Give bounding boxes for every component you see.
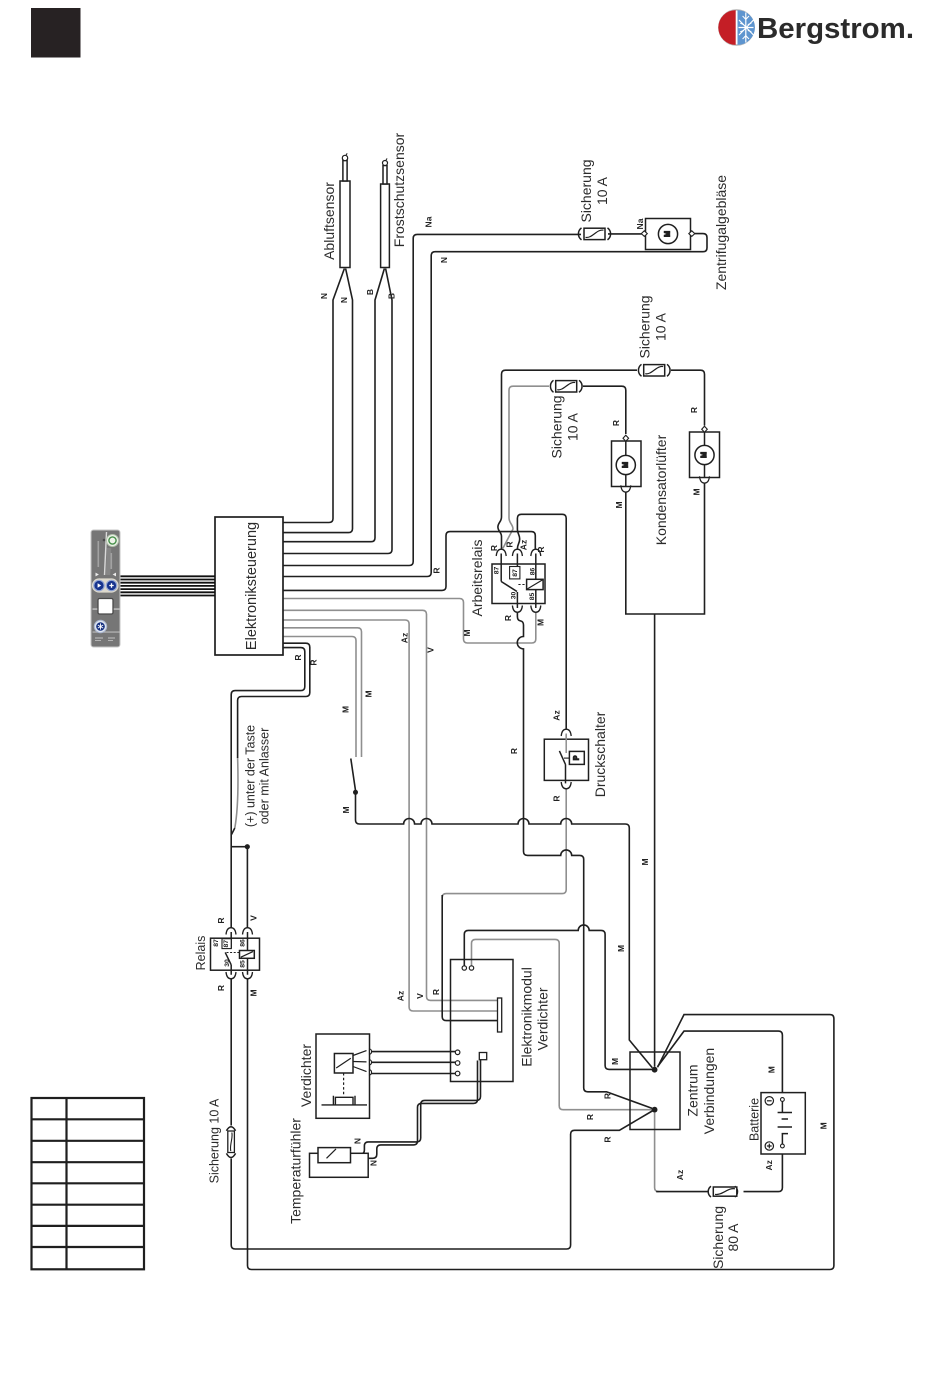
wire branch to (+) supply dot	[231, 846, 247, 848]
ribbon cable panel to Elektroniksteuerung	[120, 576, 215, 595]
box Elektronikmodul Verdichter	[451, 960, 514, 1082]
svg-text:M: M	[341, 806, 351, 813]
svg-text:R: R	[603, 1136, 613, 1142]
svg-text:M: M	[462, 629, 472, 636]
compressor Verdichter	[316, 1034, 372, 1118]
svg-text:R: R	[216, 985, 226, 991]
connector Relais pin 30 bottom	[226, 972, 236, 979]
wire R from Elektroniksteuerung bottom to Relais pin 87	[231, 648, 305, 928]
wire Frostschutzsensor lead B1 to Elektroniksteuerung	[283, 269, 384, 542]
wire merge of supply into R wire	[232, 828, 235, 835]
motor Kondensatorluefter 1	[612, 435, 642, 492]
wire R from Elektroniksteuerung to Arbeitsrelais pin 86	[283, 532, 535, 591]
svg-text:Verdichter: Verdichter	[535, 987, 551, 1050]
fuse F5 Sicherung 80A	[708, 1186, 737, 1197]
svg-text:N: N	[353, 1138, 363, 1144]
wire gray hook at (+) supply point	[235, 758, 238, 829]
svg-text:M: M	[665, 231, 672, 237]
svg-text:Az: Az	[519, 540, 529, 550]
svg-text:R: R	[585, 1114, 595, 1120]
wire M from Batterie minus to Zentrum top node	[658, 1031, 783, 1097]
battery Batterie	[761, 1093, 805, 1154]
svg-text:R: R	[293, 654, 303, 660]
wire gray M pair to switch (line 1)	[283, 628, 362, 757]
wire gray Az from Elektroniksteuerung to Elektronikmodul	[283, 620, 498, 1011]
node (+) supply dot	[245, 844, 250, 849]
svg-text:R: R	[552, 795, 562, 801]
svg-text:B: B	[387, 293, 397, 299]
svg-text:M: M	[364, 690, 374, 697]
svg-text:R: R	[503, 615, 513, 621]
svg-text:Az: Az	[396, 991, 406, 1001]
wire M below Kondensatorluefter motors	[626, 483, 705, 614]
svg-text:N: N	[319, 293, 329, 299]
svg-text:R: R	[489, 545, 499, 551]
svg-text:85: 85	[529, 593, 536, 601]
wire R from top fuse F2 to Arbeitsrelais pin 87	[498, 370, 637, 549]
svg-text:Elektronikmodul: Elektronikmodul	[519, 967, 535, 1067]
svg-text:Sicherung: Sicherung	[710, 1206, 726, 1269]
svg-text:N: N	[439, 257, 449, 263]
relay Arbeitsrelais box	[492, 554, 545, 609]
svg-text:(+) unter der Taste: (+) unter der Taste	[244, 725, 258, 827]
wire gray Az from fuse F5 corner up to Zentrum bottom node	[655, 1113, 659, 1192]
wire Abluftsensor lead N1 to Elektroniksteuerung	[283, 269, 344, 523]
BLACKWIRES	[32, 153, 806, 1269]
connector Druckschalter top	[561, 729, 571, 736]
motor Kondensatorluefter 2	[690, 426, 720, 483]
svg-text:Sicherung: Sicherung	[637, 295, 653, 358]
wire Verdichter terminal 3 to Elektronikmodul	[370, 1073, 456, 1075]
svg-text:M: M	[622, 462, 629, 468]
wire M bus1 from switch to Zentrum top node with crossover bumps	[356, 795, 653, 1068]
relay Relais box	[211, 932, 260, 975]
GRAYWIRES	[231, 234, 834, 1270]
box Elektroniksteuerung	[215, 517, 283, 655]
svg-text:10 A: 10 A	[565, 412, 581, 441]
svg-text:Druckschalter: Druckschalter	[592, 711, 608, 797]
svg-text:M: M	[536, 619, 546, 626]
svg-text:M: M	[616, 945, 626, 952]
black square top-left	[31, 8, 81, 58]
fuse F3 Sicherung 10A (Kondensatorluefter left)	[550, 380, 582, 392]
svg-text:Verdichter: Verdichter	[298, 1044, 314, 1107]
wire Na from Elektroniksteuerung to fuse F1	[283, 234, 581, 565]
fuse F4 Sicherung 10A vertical	[226, 1127, 235, 1158]
wire R bus2 from Arbeitsrelais pin 30 to Zentrum bottom node	[517, 613, 652, 1108]
svg-text:R: R	[509, 748, 519, 754]
wire Verdichter terminal 2 to Elektronikmodul	[370, 1061, 456, 1063]
sensor Temperaturfuehler	[310, 1148, 369, 1178]
svg-text:B: B	[365, 289, 375, 295]
fuse F2 Sicherung 10A (Kondensatorluefter right)	[638, 364, 670, 376]
switch Druckschalter	[544, 734, 588, 784]
connector Arbeitsrelais pin 30	[512, 606, 522, 613]
svg-text:Arbeitsrelais: Arbeitsrelais	[469, 539, 485, 616]
svg-text:Az: Az	[675, 1170, 685, 1180]
svg-text:Na: Na	[635, 218, 645, 229]
svg-text:M: M	[819, 1122, 829, 1129]
wire R from Relais pin 30 through fuse F4 to Zentrum bottom node	[230, 979, 232, 1126]
svg-text:87: 87	[494, 567, 501, 575]
svg-text:R: R	[309, 659, 319, 665]
svg-text:P: P	[573, 755, 580, 760]
svg-text:30: 30	[511, 592, 518, 600]
svg-text:Az: Az	[399, 633, 409, 643]
wire gray R module to Zentrum bottom node	[472, 939, 653, 1109]
svg-text:Kondensatorlüfter: Kondensatorlüfter	[653, 434, 669, 545]
svg-text:85: 85	[240, 960, 247, 968]
svg-text:Az: Az	[552, 710, 562, 720]
svg-text:M: M	[610, 1058, 620, 1065]
wire gray V from Elektroniksteuerung to Elektronikmodul	[283, 610, 498, 1000]
wire Frostschutzsensor lead B2 to Elektroniksteuerung	[283, 269, 392, 554]
svg-text:R: R	[432, 567, 442, 573]
svg-text:Zentrifugalgebläse: Zentrifugalgebläse	[713, 175, 729, 290]
svg-text:M: M	[640, 858, 650, 865]
Druckschalter internal top contact stub	[565, 735, 567, 754]
svg-text:87: 87	[213, 939, 220, 947]
svg-text:V: V	[249, 915, 259, 921]
table legend bottom-left	[32, 1098, 145, 1269]
svg-text:Sicherung 10 A: Sicherung 10 A	[208, 1098, 222, 1183]
svg-text:Elektroniksteuerung: Elektroniksteuerung	[244, 522, 260, 650]
svg-text:Verbindungen: Verbindungen	[701, 1048, 717, 1134]
svg-text:N: N	[339, 297, 349, 303]
svg-text:Sicherung: Sicherung	[549, 395, 565, 458]
wire switch blade M	[351, 759, 356, 791]
motor Zentrifugalgeblaese	[641, 219, 695, 250]
wire gray Druckschalter bottom to corner (net R)	[442, 789, 566, 898]
wire Verdichter terminal 1 to Elektronikmodul	[370, 1051, 456, 1053]
wire Abluftsensor lead N2 to Elektroniksteuerung	[283, 269, 353, 533]
svg-text:M: M	[249, 989, 259, 996]
wire Az from Batterie plus to fuse F5	[744, 1148, 783, 1192]
wire N from Zentrifugalgeblaese motor to Elektroniksteuerung	[283, 234, 707, 577]
svg-text:M: M	[614, 501, 624, 508]
svg-text:Abluftsensor: Abluftsensor	[321, 182, 337, 260]
wire M stem from Kondensatorluefter to Zentrum top node	[654, 614, 656, 1067]
svg-text:M: M	[701, 452, 708, 458]
connector Relais pin 87 top	[226, 928, 236, 935]
svg-text:Sicherung: Sicherung	[578, 159, 594, 222]
svg-text:Frostschutzsensor: Frostschutzsensor	[391, 132, 407, 247]
svg-text:10 A: 10 A	[594, 176, 610, 205]
svg-text:Az: Az	[764, 1160, 774, 1170]
wire M from Relais pin 85 around to Zentrum top node	[248, 979, 834, 1270]
svg-text:V: V	[415, 993, 425, 999]
connector Relais pin 86 top	[243, 928, 253, 935]
svg-text:Bergstrom.: Bergstrom.	[757, 13, 914, 45]
wire R2 from Elektroniksteuerung bottom to (+) supply point	[238, 643, 310, 758]
svg-text:R: R	[536, 546, 546, 552]
svg-text:R: R	[611, 420, 621, 426]
wire R from Druckschalter corner down to Elektronikmodul	[442, 895, 497, 1021]
node Zentrum bottom dot	[652, 1107, 658, 1113]
connector Arbeitsrelais pin 85	[531, 606, 541, 613]
node M switch dot	[353, 790, 358, 795]
svg-text:30: 30	[224, 959, 231, 967]
svg-text:R: R	[603, 1093, 613, 1099]
wire V from (+) point to Relais pin 86	[246, 847, 248, 928]
sensor Abluftsensor body	[340, 153, 350, 267]
wire gray M pair to switch (line 2)	[283, 637, 356, 758]
wire Az from fuse F5 to Zentrum bottom node	[656, 1191, 708, 1193]
svg-text:N: N	[369, 1160, 379, 1166]
svg-text:M: M	[692, 488, 702, 495]
svg-text:V: V	[426, 647, 436, 653]
wire M from Elektronikmodul to Zentrum top node with hop over bus2	[464, 925, 652, 1069]
connector Arbeitsrelais pin 87	[496, 549, 506, 556]
node Zentrum top dot	[652, 1067, 658, 1073]
svg-text:oder mit Anlasser: oder mit Anlasser	[258, 728, 272, 825]
connector Relais pin 85 bottom	[243, 972, 253, 979]
wire N pair Temperaturfuehler to Elektronikmodul (inner)	[368, 1061, 477, 1159]
svg-text:10 A: 10 A	[653, 312, 669, 341]
fuse F1 Sicherung 10A (Zentrifugalgeblaese)	[578, 228, 610, 240]
wire Az from Arbeitsrelais pin 87b to Druckschalter	[517, 514, 566, 729]
logo Bergstrom	[718, 10, 914, 45]
svg-text:M: M	[341, 706, 351, 713]
connector Arbeitsrelais pin 86	[531, 549, 541, 556]
junction box Zentrum Verbindungen	[630, 1052, 680, 1130]
svg-text:80 A: 80 A	[725, 1223, 741, 1252]
svg-text:R: R	[216, 917, 226, 923]
svg-text:87: 87	[223, 940, 230, 948]
svg-text:R: R	[505, 541, 515, 547]
svg-text:R: R	[689, 407, 699, 413]
wire gray from left fuse to relay pin 87b (net R)	[503, 386, 549, 548]
wire N pair Temperaturfuehler to Elektronikmodul (outer)	[351, 1060, 481, 1155]
svg-text:Temperaturfühler: Temperaturfühler	[288, 1118, 304, 1224]
connector Arbeitsrelais pin 87b	[512, 549, 522, 556]
sensor Frostschutzsensor body	[381, 158, 390, 267]
svg-text:86: 86	[530, 568, 537, 576]
control panel bedienteil	[91, 530, 120, 647]
svg-text:87: 87	[512, 569, 519, 577]
svg-text:Zentrum: Zentrum	[685, 1064, 701, 1116]
svg-text:M: M	[767, 1066, 777, 1073]
svg-text:Na: Na	[424, 216, 434, 227]
wire from fuse F2 to Kondensatorluefter motor 2	[671, 370, 705, 425]
svg-text:R: R	[431, 989, 441, 995]
connector Druckschalter bottom	[561, 782, 571, 789]
svg-text:Relais: Relais	[194, 936, 208, 971]
wire gray M from Elektroniksteuerung to Arbeitsrelais pin 85	[283, 599, 536, 644]
svg-text:86: 86	[240, 939, 247, 947]
svg-text:Batterie: Batterie	[748, 1098, 762, 1141]
wire Na from fuse F1 to Zentrifugalgeblaese motor	[608, 233, 642, 235]
wire from fuse F3 to Kondensatorluefter motor 1	[583, 386, 626, 434]
